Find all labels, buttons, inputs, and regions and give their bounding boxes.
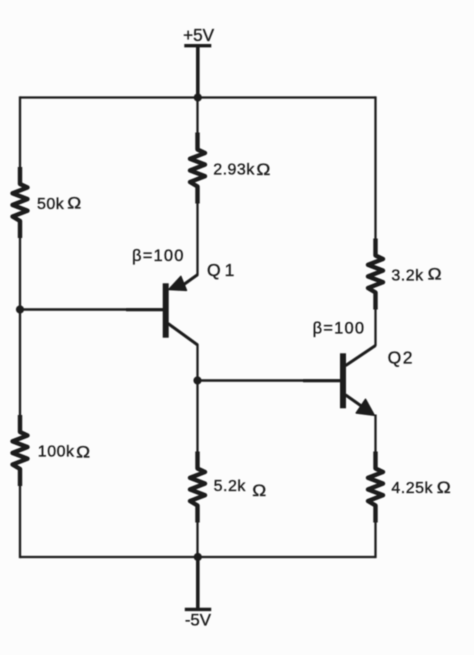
wire 3.2k to Q2 collector (374, 309, 376, 347)
node bottom junction (194, 553, 202, 561)
svg-text:4.25k: 4.25k (391, 480, 433, 497)
wire Q2 base lead from center node (198, 379, 341, 381)
wire 4.25k to bottom (374, 522, 376, 559)
resistor R1 50k (13, 167, 28, 238)
wire left rail lower (19, 485, 21, 558)
svg-text:2.93k: 2.93k (213, 162, 255, 179)
wire node to 5.2k (196, 381, 198, 453)
resistor R5 3.2k (368, 239, 383, 310)
svg-text:Ω: Ω (252, 481, 266, 500)
resistor R4 5.2k (190, 452, 205, 523)
wire right rail upper (374, 96, 376, 239)
svg-text:β=100: β=100 (132, 247, 185, 265)
svg-text:5.2k: 5.2k (214, 478, 247, 495)
wire left rail mid (19, 237, 21, 416)
-5V supply symbol (185, 557, 212, 629)
svg-text:β=100: β=100 (313, 320, 366, 338)
svg-text:Ω: Ω (76, 442, 90, 461)
wire Q1 collector down to node (196, 344, 198, 381)
svg-text:-5V: -5V (185, 610, 212, 629)
wire center upper (196, 98, 198, 134)
svg-text:Ω: Ω (67, 193, 81, 212)
wire Q2 emitter down (374, 415, 376, 453)
wire 5.2k to bottom (196, 522, 198, 558)
svg-text:Ω: Ω (256, 160, 270, 179)
resistor R6 4.25k (368, 452, 383, 523)
wire bottom rail (20, 556, 376, 558)
+5V supply symbol (183, 25, 215, 98)
svg-text:Ω: Ω (437, 478, 451, 497)
transistor Q2 base bar (340, 353, 346, 408)
node top junction (194, 93, 202, 101)
svg-text:100k: 100k (38, 443, 75, 460)
wire top rail (20, 96, 376, 98)
wire Q1 base lead (20, 308, 163, 310)
transistor Q1 collector diagonal (168, 324, 198, 345)
node left junction (16, 305, 24, 313)
transistor Q2 collector diagonal (346, 346, 376, 366)
wire left rail upper (19, 96, 21, 168)
svg-text:+5V: +5V (183, 25, 215, 45)
resistor R3 2.93k (190, 133, 205, 204)
transistor Q1 base bar (163, 283, 169, 337)
svg-text:Ω: Ω (428, 264, 442, 283)
transistor Q1 emitter diagonal with arrow into bar (181, 275, 198, 287)
svg-text:Q2: Q2 (388, 347, 413, 367)
svg-text:50k: 50k (37, 196, 65, 213)
wire center to Q1 emitter (196, 203, 198, 276)
transistor Q2 emitter diagonal with arrow out (346, 395, 363, 407)
svg-text:3.2k: 3.2k (391, 267, 424, 284)
svg-text:Q1: Q1 (207, 260, 235, 280)
node center junction (193, 376, 201, 384)
resistor R2 100k (13, 415, 28, 486)
